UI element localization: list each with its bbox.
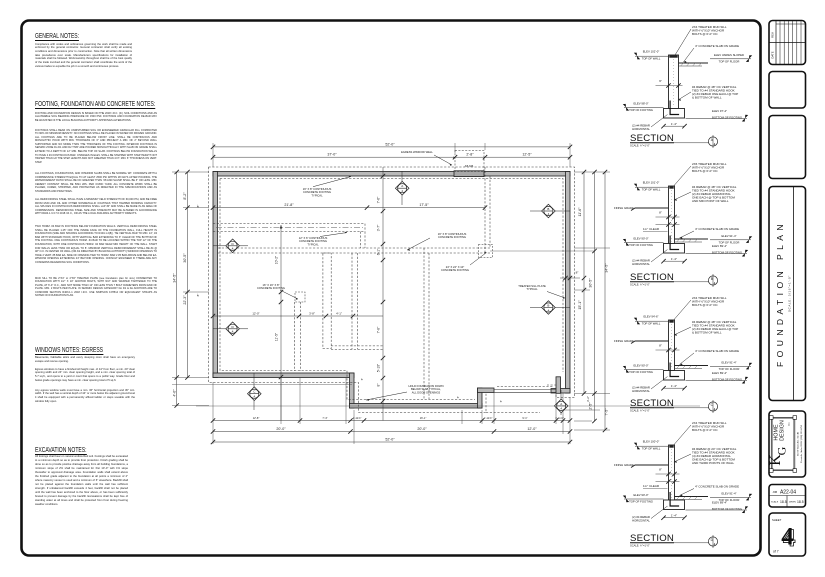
- section C rebar horizontal note: [632, 377, 667, 393]
- section C slab note: [680, 349, 740, 365]
- interior footing dashed band 1: [213, 224, 365, 232]
- section C wall: [669, 320, 675, 371]
- svg-text:10'-2": 10'-2": [275, 255, 279, 264]
- section D title: [630, 533, 718, 548]
- svg-text:FOUNDATION PLAN: FOUNDATION PLAN: [775, 220, 785, 367]
- section A wall: [669, 55, 679, 109]
- svg-text:TREATED SILL PLATETYPICAL: TREATED SILL PLATETYPICAL: [518, 284, 546, 291]
- svg-text:BOTTOM OF FOOTING: BOTTOM OF FOOTING: [712, 507, 742, 511]
- section B wall: [669, 186, 675, 244]
- svg-text:SCALE: SCALE: [771, 501, 779, 504]
- svg-text:18.5: 18.5: [797, 500, 804, 504]
- section marker C bottom left: [248, 373, 262, 410]
- section B elev bottom of footing: [686, 244, 749, 257]
- label 12x6 continuous footing: [299, 232, 347, 247]
- footing notes paragraph 2: [35, 129, 157, 165]
- label 16x8 continuous footing top: [303, 176, 351, 198]
- svg-text:ELEV 89'-4": ELEV 89'-4": [712, 501, 727, 505]
- footing notes paragraph 4: [35, 198, 157, 216]
- section B mud sill note: [672, 162, 727, 189]
- svg-text:4'-1": 4'-1": [336, 311, 342, 315]
- inner footing dashed outline: [220, 179, 563, 400]
- outer footing dashed outline: [209, 167, 575, 413]
- section B footing dim: [661, 257, 686, 264]
- section D slab note: [680, 485, 740, 497]
- svg-text:HOLD FOUNDATION DOWNBELOW SLAB: HOLD FOUNDATION DOWNBELOW SLAB TYPICAL,A…: [408, 384, 443, 394]
- pad footing 24x24: [479, 245, 493, 258]
- svg-text:1'-11⅝": 1'-11⅝": [353, 416, 362, 420]
- svg-text:1'-4": 1'-4": [671, 257, 677, 261]
- svg-text:8": 8": [659, 344, 662, 348]
- section A mud sill note: [674, 25, 727, 58]
- svg-text:ELEV 89'-4": ELEV 89'-4": [712, 371, 727, 375]
- section C mud sill block: [669, 320, 673, 322]
- svg-text:11'-6": 11'-6": [578, 207, 582, 217]
- windows notes paragraph 1: [35, 356, 135, 363]
- section marker D left top: [213, 239, 248, 253]
- svg-text:ELEV 97'-4": ELEV 97'-4": [712, 109, 727, 113]
- section C elev top of footing: [623, 363, 664, 374]
- interior footing vertical dashed connector: [361, 232, 366, 248]
- svg-text:52'-0": 52'-0": [385, 142, 395, 146]
- section B finish grade: [614, 206, 669, 211]
- egress window well dashed: [455, 151, 484, 172]
- svg-text:34'-5": 34'-5": [172, 273, 176, 283]
- section marker B right top: [530, 204, 570, 218]
- heading windows notes egress: [35, 347, 103, 355]
- svg-text:ELEV 91'-4": ELEV 91'-4": [721, 492, 736, 496]
- svg-text:610 W State Ave, Ste 4B: 610 W State Ave, Ste 4B: [797, 431, 800, 456]
- svg-text:37'-0": 37'-0": [327, 153, 337, 157]
- svg-text:A5 6/6: A5 6/6: [465, 164, 474, 168]
- svg-text:9": 9": [659, 79, 662, 83]
- svg-text:16" X 8" CONTINUOUSCONCRETE FO: 16" X 8" CONTINUOUSCONCRETE FOOTINGTYPIC…: [303, 187, 332, 197]
- section D footing dim: [661, 513, 686, 520]
- svg-text:1'-4": 1'-4": [671, 384, 677, 388]
- svg-text:16'-1": 16'-1": [420, 416, 427, 420]
- svg-text:52'-0": 52'-0": [385, 437, 395, 441]
- section D slab lines: [675, 497, 709, 500]
- svg-text:A22-04: A22-04: [780, 490, 796, 496]
- svg-text:34'-5": 34'-5": [605, 263, 609, 273]
- svg-text:TOP OF FOOTING: TOP OF FOOTING: [629, 243, 653, 247]
- section D elev top of floor: [710, 492, 752, 503]
- svg-text:16" X 8" CONTINUOUSCONCRETE FO: 16" X 8" CONTINUOUSCONCRETE FOOTING: [438, 232, 467, 239]
- pad footing tall: [323, 253, 331, 349]
- bottom extension lines: [213, 378, 570, 444]
- svg-text:B: B: [711, 277, 713, 281]
- svg-text:TOP OF WALL: TOP OF WALL: [642, 188, 661, 192]
- svg-text:6'-1": 6'-1": [377, 248, 381, 255]
- section C title: [630, 398, 718, 413]
- svg-text:TOP OF WALL: TOP OF WALL: [642, 447, 661, 451]
- interior dim row y317: [211, 311, 383, 318]
- svg-text:ELEV 91'-4": ELEV 91'-4": [721, 234, 736, 238]
- svg-text:B: B: [547, 304, 549, 308]
- svg-text:FINISH GRADE: FINISH GRADE: [614, 206, 634, 210]
- svg-text:EGRESS WINDOW WELL: EGRESS WINDOW WELL: [401, 150, 433, 154]
- svg-text:SCALE: ¾"=1'-0": SCALE: ¾"=1'-0": [630, 144, 650, 148]
- svg-text:7'-6": 7'-6": [377, 196, 381, 203]
- svg-text:ELEV 90'-0": ELEV 90'-0": [633, 493, 648, 497]
- pad footing 16x16: [295, 292, 305, 302]
- svg-text:#4 REBAR @ 24" OC VERTICALTIED: #4 REBAR @ 24" OC VERTICALTIED TO #4 STA…: [692, 447, 737, 465]
- bottom dim row1: [211, 416, 572, 423]
- top dimension row2: [211, 153, 572, 160]
- svg-text:15'-1": 15'-1": [578, 300, 582, 310]
- interior vertical dashed mid2: [352, 253, 358, 349]
- svg-text:7'-5": 7'-5": [605, 408, 609, 416]
- section A 9in dim: [656, 79, 683, 88]
- svg-text:4" CONCRETE SLAB ON GRADE: 4" CONCRETE SLAB ON GRADE: [695, 349, 739, 353]
- svg-text:DATE: DATE: [771, 51, 775, 58]
- logo box KG Home Design: [767, 411, 806, 477]
- svg-text:ELEV 100'-0": ELEV 100'-0": [643, 439, 660, 443]
- top dimension 52ft: [211, 142, 572, 149]
- section D mud sill block: [669, 445, 673, 447]
- section D elev bottom of footing: [686, 501, 749, 514]
- section A slab note: [684, 44, 740, 63]
- section B elev top of wall: [634, 180, 669, 191]
- svg-text:(2) #4 REBARHORIZONTAL: (2) #4 REBARHORIZONTAL: [632, 259, 650, 266]
- svg-text:3'-7": 3'-7": [377, 224, 381, 231]
- interior vertical chain x281: [275, 225, 284, 421]
- svg-text:18.5: 18.5: [780, 500, 787, 504]
- svg-text:SCALE: 3/16"=1'-0": SCALE: 3/16"=1'-0": [788, 275, 792, 312]
- label egress window well: [401, 150, 452, 166]
- footing notes paragraph 1: [35, 112, 157, 123]
- section D elev top of footing: [623, 493, 664, 504]
- label 16x8 continuous footing right: [407, 232, 466, 251]
- svg-text:B: B: [547, 207, 549, 211]
- svg-text:2'-8": 2'-8": [466, 153, 474, 157]
- svg-text:3'-2": 3'-2": [586, 396, 590, 402]
- section marker D left mid: [213, 322, 248, 336]
- section D footing: [664, 492, 685, 510]
- section B slab note: [680, 227, 740, 239]
- svg-text:1'-11⅝": 1'-11⅝": [484, 416, 493, 420]
- section A title: [630, 133, 718, 148]
- svg-text:5": 5": [499, 400, 503, 402]
- svg-text:1¾" CLEAR: 1¾" CLEAR: [643, 227, 660, 231]
- svg-text:4: 4: [783, 525, 796, 552]
- label 16x16x8 footing: [257, 283, 298, 300]
- svg-text:21'-8": 21'-8": [284, 203, 294, 207]
- excavation notes paragraph: [35, 455, 128, 507]
- section marker bottom right: [554, 390, 568, 415]
- job number box: [769, 485, 806, 508]
- svg-text:4" CONCRETE SLAB ON GRADE: 4" CONCRETE SLAB ON GRADE: [695, 44, 739, 48]
- left dim chain: [183, 170, 190, 380]
- section D wall: [669, 445, 675, 500]
- svg-text:A: A: [401, 184, 403, 188]
- svg-text:TOP OF FOOTING: TOP OF FOOTING: [629, 370, 653, 374]
- section A slab lines: [679, 63, 709, 66]
- section B rebar note: [674, 185, 737, 203]
- svg-text:3'-8": 3'-8": [309, 311, 315, 315]
- section B 8in dim: [656, 211, 680, 220]
- top extension lines: [213, 143, 570, 167]
- section D finish grade: [614, 463, 669, 468]
- svg-text:4" CONCRETE SLAB ON GRADE: 4" CONCRETE SLAB ON GRADE: [695, 227, 739, 231]
- heading footing foundation concrete notes: [35, 101, 155, 109]
- svg-text:20'-0": 20'-0": [276, 427, 286, 431]
- title strip sheet title box: [769, 187, 806, 401]
- section C footing: [664, 363, 685, 381]
- svg-text:ELEV 90'-0": ELEV 90'-0": [633, 236, 648, 240]
- section B slab lines: [675, 239, 709, 242]
- section D rebar horizontal note: [632, 506, 667, 522]
- footing notes paragraph 6: [35, 277, 157, 299]
- svg-text:(2) #4 REBARHORIZONTAL: (2) #4 REBARHORIZONTAL: [632, 386, 650, 393]
- section A footing dim: [661, 122, 686, 129]
- section C elev top of floor: [710, 361, 752, 372]
- general notes paragraph: [35, 43, 132, 69]
- section D clear note: [643, 479, 680, 488]
- svg-text:ELEV 90'-0": ELEV 90'-0": [633, 363, 648, 367]
- svg-text:FINISH GRADE: FINISH GRADE: [614, 339, 634, 343]
- interior vertical chain x383: [377, 167, 386, 421]
- section D elev top of wall: [634, 439, 669, 450]
- section A elev top of floor: [710, 53, 752, 64]
- svg-text:4: 4: [714, 408, 716, 412]
- svg-text:8'-2": 8'-2": [183, 192, 187, 200]
- section D 8in dim: [656, 468, 680, 477]
- svg-text:4'-0": 4'-0": [172, 389, 176, 397]
- svg-text:TOP OF FOOTING: TOP OF FOOTING: [629, 499, 653, 503]
- svg-text:12'-8": 12'-8": [253, 416, 260, 420]
- svg-text:SCALE: ¾"=1'-0": SCALE: ¾"=1'-0": [630, 544, 650, 548]
- title strip rev/date box: [769, 21, 806, 65]
- footing notes paragraph 3: [35, 172, 157, 194]
- sheet number box: [769, 513, 806, 556]
- svg-text:5": 5": [456, 396, 460, 398]
- windows notes paragraph 2: [35, 368, 135, 383]
- svg-text:ELEV 89'-4": ELEV 89'-4": [712, 244, 727, 248]
- svg-text:BOTTOM OF FOOTING: BOTTOM OF FOOTING: [712, 378, 742, 382]
- right dim chain 2: [589, 170, 597, 423]
- interior footing vertical dashed mid: [424, 248, 429, 399]
- svg-text:22'-3": 22'-3": [183, 295, 187, 305]
- svg-text:FINISH GRADE: FINISH GRADE: [614, 463, 634, 467]
- svg-text:DRWN: DRWN: [789, 502, 796, 504]
- label 24x24x10 footing: [441, 252, 487, 272]
- svg-text:2X6 TREATED MUD SILLWITH ½"X10: 2X6 TREATED MUD SILLWITH ½"X10" ANCHORBO…: [692, 162, 727, 173]
- svg-text:1'-11⅝": 1'-11⅝": [555, 416, 564, 420]
- heading general notes: [35, 33, 79, 41]
- section B title: [630, 272, 718, 287]
- svg-text:24" X 24" X 10"CONCRETE FOOTIN: 24" X 24" X 10"CONCRETE FOOTING: [441, 265, 469, 272]
- section C rebar note: [674, 320, 738, 336]
- svg-text:1'-4": 1'-4": [671, 513, 677, 517]
- svg-text:3": 3": [452, 156, 456, 158]
- section C elev top of wall: [634, 314, 669, 325]
- svg-text:BOTTOM OF FOOTING: BOTTOM OF FOOTING: [712, 251, 742, 255]
- svg-text:8": 8": [576, 271, 579, 275]
- svg-text:BOTTOM OF FOOTING: BOTTOM OF FOOTING: [712, 116, 742, 120]
- title strip empty box 2: [769, 116, 806, 179]
- svg-text:1'-4": 1'-4": [671, 122, 677, 126]
- svg-text:ELEV 102'-0": ELEV 102'-0": [643, 49, 660, 53]
- svg-text:7'-4": 7'-4": [322, 416, 327, 420]
- svg-text:JOB: JOB: [773, 491, 778, 494]
- svg-text:30'-5": 30'-5": [183, 253, 187, 263]
- section A mud sill block: [669, 55, 677, 57]
- svg-text:11'-5": 11'-5": [275, 332, 279, 341]
- svg-text:4" CONCRETE SLAB ON GRADE: 4" CONCRETE SLAB ON GRADE: [695, 485, 739, 489]
- section B elev top of floor: [710, 234, 752, 245]
- svg-text:REV: REV: [771, 32, 775, 38]
- section A elev top of footing: [623, 101, 664, 112]
- svg-text:8": 8": [196, 294, 200, 297]
- svg-text:TOP OF WALL: TOP OF WALL: [642, 57, 661, 61]
- svg-text:2X4 TREATED MUD SILLWITH ½"X10: 2X4 TREATED MUD SILLWITH ½"X10" ANCHORBO…: [692, 296, 727, 307]
- svg-text:LLC: LLC: [789, 422, 791, 426]
- section A elev bottom of footing: [686, 109, 749, 121]
- heading excavation notes: [35, 447, 87, 455]
- svg-text:#4 REBAR @ 48" OC VERTICALTIED: #4 REBAR @ 48" OC VERTICALTIED TO #4 STA…: [692, 85, 738, 100]
- section B mud sill block: [669, 186, 673, 188]
- bottom dim row3: [211, 437, 572, 444]
- svg-text:(2) #4 REBARHORIZONTAL: (2) #4 REBARHORIZONTAL: [632, 124, 650, 131]
- svg-text:4: 4: [714, 143, 716, 147]
- svg-text:12'-5": 12'-5": [522, 153, 532, 157]
- svg-text:7'-8": 7'-8": [377, 326, 381, 333]
- svg-text:ELEV 98'-0": ELEV 98'-0": [633, 101, 648, 105]
- left dim 34-5: [172, 170, 179, 408]
- bottom dim row2: [211, 427, 572, 434]
- svg-text:ELEV 91'-4": ELEV 91'-4": [721, 361, 736, 365]
- section B rebar horizontal note: [632, 250, 667, 266]
- interior footing centerline band1: [216, 227, 363, 229]
- right extension lines: [560, 172, 610, 430]
- svg-text:5'-10": 5'-10": [377, 363, 381, 372]
- section C 8in dim: [656, 344, 680, 353]
- svg-text:TOP OF FOOTING: TOP OF FOOTING: [629, 108, 653, 112]
- svg-text:8": 8": [196, 205, 200, 208]
- svg-text:SHEET: SHEET: [772, 518, 782, 522]
- label hold foundation down: [366, 384, 444, 401]
- svg-text:A: A: [560, 402, 562, 406]
- svg-text:8": 8": [659, 211, 662, 215]
- svg-text:4: 4: [714, 543, 716, 547]
- svg-text:Pocatello, Idaho 83202 (208): Pocatello, Idaho 83202 (208) 233-4756: [800, 424, 803, 463]
- interior vertical dashed left: [295, 302, 301, 371]
- section D rebar note: [674, 447, 737, 465]
- interior dim 21-8 / 17-5: [211, 203, 487, 210]
- svg-text:12'-0": 12'-0": [252, 311, 259, 315]
- svg-text:ELEV VARIES SLOPED: ELEV VARIES SLOPED: [714, 53, 744, 57]
- svg-text:TOP OF WALL: TOP OF WALL: [642, 322, 661, 326]
- section marker B right mid: [530, 301, 570, 315]
- svg-text:8": 8": [377, 383, 381, 387]
- svg-text:4: 4: [714, 282, 716, 286]
- svg-text:ELEV 94'-6": ELEV 94'-6": [643, 314, 658, 318]
- section C elev bottom of footing: [686, 371, 749, 384]
- section B clear note: [643, 222, 680, 231]
- svg-text:9'-1": 9'-1": [522, 416, 527, 420]
- section A rebar note: [678, 85, 738, 101]
- svg-text:TOP OF FLOOR: TOP OF FLOOR: [719, 60, 740, 64]
- svg-text:SCALE: ¾"=1'-0": SCALE: ¾"=1'-0": [630, 409, 650, 413]
- right dim chain 3: [603, 170, 609, 432]
- svg-text:1¾" CLEAR: 1¾" CLEAR: [643, 484, 660, 488]
- svg-text:ELEV 101'-0": ELEV 101'-0": [643, 180, 660, 184]
- svg-text:of 7: of 7: [773, 550, 779, 554]
- svg-text:17'-5": 17'-5": [419, 203, 429, 207]
- footing notes paragraph 5: [35, 225, 157, 265]
- interior footing dashed band 2: [218, 248, 490, 253]
- interior horizontal dashed low: [331, 346, 383, 350]
- right dim chain 1: [578, 170, 586, 396]
- svg-text:#4 REBAR @ 48" OC VERTICALTIED: #4 REBAR @ 48" OC VERTICALTIED TO #4 STA…: [692, 320, 738, 335]
- section B footing: [664, 236, 685, 254]
- left extension lines: [172, 172, 209, 406]
- title strip empty box 1: [769, 72, 806, 109]
- svg-text:12'-0": 12'-0": [527, 427, 537, 431]
- svg-text:G: G: [775, 446, 789, 455]
- windows notes paragraph 3: [35, 389, 135, 404]
- section marker A top: [395, 171, 409, 205]
- door opening thin lines: [494, 389, 556, 391]
- svg-text:(2) #4 REBARHORIZONTAL: (2) #4 REBARHORIZONTAL: [632, 515, 650, 522]
- section C slab lines: [675, 366, 709, 369]
- svg-text:30'-5": 30'-5": [589, 278, 593, 288]
- section B elev top of footing: [623, 236, 664, 247]
- svg-text:2X4 TREATED MUD SILLWITH ½"X10: 2X4 TREATED MUD SILLWITH ½"X10" ANCHORBO…: [692, 421, 727, 432]
- svg-text:8": 8": [659, 468, 662, 472]
- interior footing vertical dashed at egress bay: [485, 167, 490, 253]
- svg-text:20'-0": 20'-0": [417, 427, 427, 431]
- svg-text:5": 5": [360, 378, 364, 380]
- section C footing dim: [661, 384, 686, 391]
- svg-text:SCALE: ¾"=1'-0": SCALE: ¾"=1'-0": [630, 283, 650, 287]
- extension line y406: [196, 405, 700, 407]
- section C finish grade: [614, 339, 669, 344]
- svg-text:DESIGN: DESIGN: [780, 420, 786, 441]
- svg-text:12" X 6" CONTINUOUSCONCRETE FO: 12" X 6" CONTINUOUSCONCRETE FOOTINGTYPIC…: [299, 236, 328, 246]
- section A footing: [664, 101, 685, 119]
- section D mud sill note: [672, 421, 727, 448]
- svg-text:2X4 TREATED MUD SILLWITH ½"X10: 2X4 TREATED MUD SILLWITH ½"X10" ANCHORBO…: [692, 25, 727, 36]
- label treated sill plate: [518, 284, 565, 299]
- section A elev top of wall: [634, 49, 669, 60]
- egress window wall segment: [454, 171, 484, 177]
- extension line y251: [490, 250, 595, 252]
- foundation plan walls: [213, 172, 570, 409]
- svg-text:#4 REBAR @ 48" OC VERTICALTIED: #4 REBAR @ 48" OC VERTICALTIED TO #4 STA…: [692, 185, 737, 203]
- section C mud sill note: [672, 296, 727, 323]
- section A rebar horizontal note: [632, 115, 667, 131]
- extension line y384: [172, 384, 352, 386]
